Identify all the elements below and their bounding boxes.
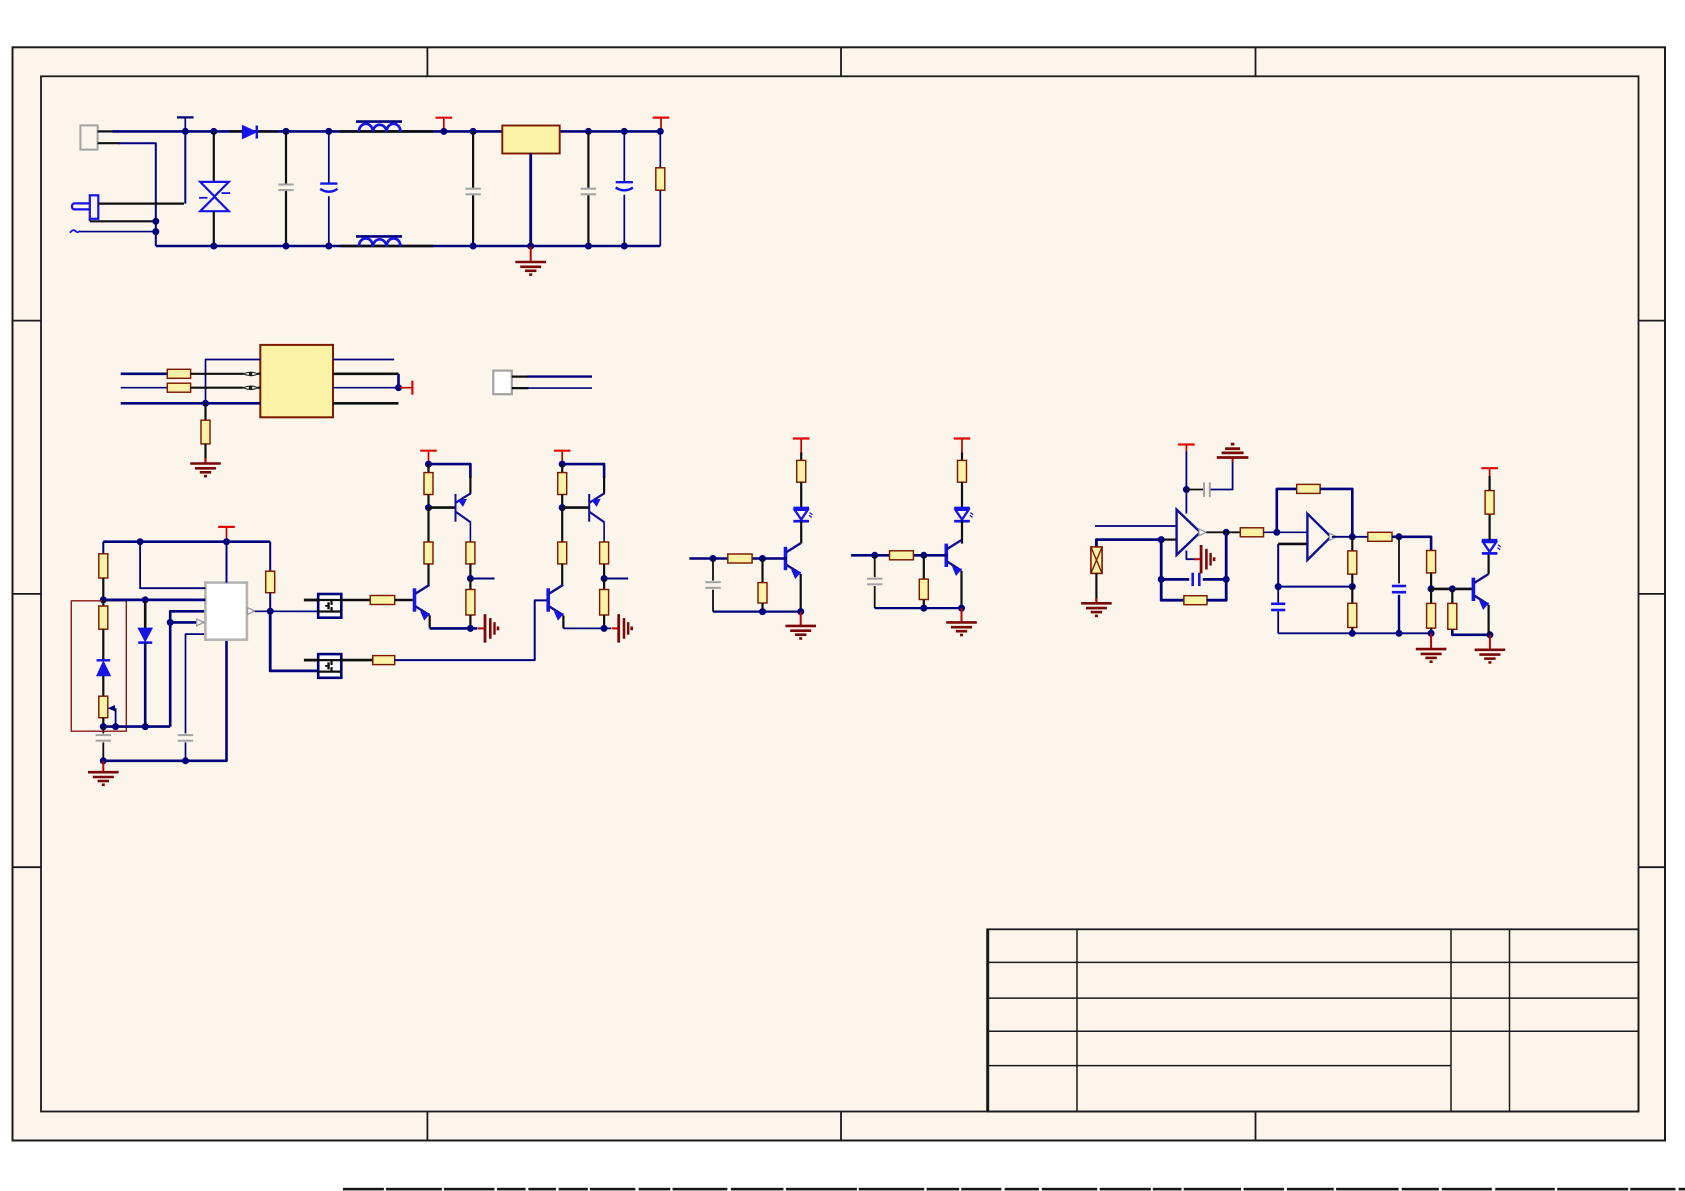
junction	[1486, 631, 1493, 638]
wire U2 gnd pin	[529, 154, 532, 247]
power port stage 1	[420, 451, 437, 464]
junction	[559, 461, 566, 468]
wire led2 cathode	[961, 521, 963, 544]
wire R10 to Q3	[395, 600, 548, 660]
junction	[267, 608, 274, 615]
wire Vcc rail ctrl	[103, 540, 270, 543]
ground GND10	[1416, 649, 1447, 662]
wire c2 top	[874, 555, 876, 577]
capacitor C12	[1271, 604, 1285, 610]
wire R5 top	[102, 542, 104, 554]
wire Rd2 bot	[561, 564, 563, 585]
ground GND9	[1194, 545, 1214, 573]
wire Q6 collector	[1487, 553, 1489, 574]
resistor Re 1	[797, 460, 806, 482]
wire R5 bottom	[102, 578, 104, 600]
resistor Rc 2	[600, 590, 609, 616]
TVS D1	[199, 182, 230, 211]
junction	[283, 128, 290, 135]
wire phase B left	[121, 372, 168, 375]
wire stage 1 emitter gnd	[430, 627, 478, 630]
wire RV1 bottom	[102, 718, 104, 727]
junction	[1275, 583, 1282, 590]
wire q1 emitter	[800, 574, 802, 612]
ground GND7	[1081, 603, 1112, 616]
wire Rc2 top	[603, 579, 605, 590]
wire pin4 net	[170, 621, 196, 624]
wire D4 top	[144, 600, 147, 628]
resistor Rb 2	[600, 542, 609, 564]
wire fb2 loop	[1277, 489, 1297, 532]
wire R2 to T1	[191, 373, 261, 375]
wire R1 branch	[659, 131, 661, 246]
wire R25 bot	[1351, 628, 1353, 634]
wire rg1 bot	[761, 603, 763, 612]
wire base Q6	[1431, 588, 1473, 591]
resistor R29	[1448, 603, 1457, 629]
wire R6 to D3	[102, 629, 104, 660]
junction	[470, 128, 477, 135]
wire R6 top	[102, 600, 104, 606]
wire q2 emitter	[960, 571, 962, 608]
junction	[467, 625, 474, 632]
transistor NPN led 1	[786, 543, 801, 578]
wire R4 top	[204, 403, 206, 420]
wire pin1 net	[140, 542, 205, 589]
wire op1 vminus	[1186, 551, 1195, 560]
ground GND7 stem	[1095, 598, 1097, 603]
capacitor C11	[1204, 482, 1210, 497]
output marker U1	[248, 608, 255, 615]
resistor R8	[266, 571, 275, 593]
wire Rc1 top	[469, 579, 471, 590]
power port +V out	[653, 118, 670, 132]
wire R4 bottom	[204, 444, 206, 462]
wire stage 1 tap	[470, 578, 494, 580]
PWM IC U1	[205, 583, 247, 640]
wire op1 vplus	[1185, 490, 1187, 514]
power port led 2	[954, 439, 971, 453]
pot wiper arrow	[108, 705, 116, 727]
junction	[1396, 630, 1403, 637]
wire gnd rail 2	[875, 607, 962, 609]
wire R29 elbow	[1452, 629, 1490, 635]
wire C13 bot	[1398, 595, 1400, 634]
wire D3 to RV1	[102, 676, 104, 696]
wire C12 bot	[1277, 611, 1279, 633]
wire c1 top	[712, 559, 714, 581]
wire base net 2	[851, 554, 948, 557]
wire Q1 npn emitter	[429, 615, 431, 628]
potentiometer RV1	[99, 696, 108, 718]
power port AC-L	[177, 117, 194, 131]
wire stage 2 top	[562, 464, 604, 478]
wire U3 pins inner	[318, 600, 341, 612]
wire TVS top	[213, 131, 215, 182]
resistor R10	[373, 656, 395, 665]
wire C2 branch	[328, 131, 330, 246]
wire Rb1 bot	[469, 564, 471, 579]
ground stem 1	[800, 612, 802, 626]
resistor Ra 1	[424, 473, 433, 495]
junction	[1223, 576, 1230, 583]
wire Rd2	[561, 508, 563, 542]
resistor R4	[201, 420, 210, 444]
wire gnd rail 1	[713, 610, 801, 612]
junction	[621, 243, 628, 250]
resistor R5	[99, 554, 108, 578]
capacitor Cg 1	[705, 582, 720, 588]
ground GND3 stem	[102, 761, 104, 772]
wire c1 bot	[712, 590, 714, 612]
junction	[585, 128, 592, 135]
ground stage 1	[478, 614, 498, 642]
wire op1 port stem	[1185, 452, 1187, 490]
wire op1 out	[1206, 531, 1240, 533]
junction	[657, 128, 664, 135]
junction	[1396, 533, 1403, 540]
junction	[759, 555, 766, 562]
wire C3 branch	[472, 131, 474, 246]
wire R111 bot	[427, 495, 429, 508]
wire LED3 top	[1488, 514, 1490, 540]
capacitor C13	[1392, 586, 1406, 592]
junction	[167, 619, 174, 626]
wire R29 top	[1451, 589, 1453, 604]
wire fb net	[170, 611, 205, 726]
wire C4 branch	[587, 131, 589, 246]
wire opto2 drive	[270, 611, 318, 671]
ground GND2 stem	[205, 458, 207, 463]
wire rg2 bot	[923, 600, 925, 609]
wire C7 bottom	[185, 742, 187, 760]
ground GND1 stem	[530, 246, 532, 262]
junction	[1223, 529, 1230, 536]
transistor Q6	[1473, 574, 1488, 609]
thermistor RT1	[1091, 547, 1102, 574]
junction	[1428, 585, 1435, 592]
plug J2	[72, 195, 98, 221]
wire U1 top pin	[226, 542, 228, 583]
wire rg1 top	[761, 559, 763, 583]
resistor Rd 2	[558, 542, 567, 564]
module box BT1	[71, 601, 126, 731]
junction	[797, 608, 804, 615]
junction	[325, 243, 332, 250]
wire Rd1 bot	[427, 564, 429, 585]
junction	[1428, 630, 1435, 637]
ground stage 2	[612, 614, 632, 642]
junction	[425, 461, 432, 468]
junction	[467, 575, 474, 582]
junction	[283, 243, 290, 250]
junction	[137, 538, 144, 545]
wire R24 bot	[1351, 574, 1353, 587]
wire mid rail	[1278, 586, 1352, 588]
regulator U2	[502, 126, 559, 154]
wire R9 to Q2	[395, 599, 413, 602]
junction	[710, 555, 717, 562]
power port led3	[1481, 468, 1498, 476]
wire base net 1	[689, 557, 787, 560]
wire op1 in- pin	[1161, 538, 1176, 540]
wire R26 right	[1392, 537, 1431, 551]
resistor R30	[1485, 491, 1494, 514]
wire phase C left	[121, 387, 168, 389]
wire C12 top	[1277, 587, 1279, 603]
wire D4 bottom	[144, 643, 147, 727]
wire C1 branch	[285, 131, 287, 246]
junction	[1158, 576, 1165, 583]
wire Q1 base wire	[429, 506, 456, 509]
wire T1 out A	[333, 359, 394, 361]
wire R27 bot	[1430, 573, 1432, 589]
wire op2 out	[1332, 536, 1368, 538]
wire R112 top	[561, 464, 563, 473]
resistor R6	[99, 606, 108, 629]
capacitor C2	[320, 184, 337, 192]
junction	[1349, 583, 1356, 590]
resistor Rd 1	[424, 542, 433, 564]
wire led1 res top	[800, 453, 802, 461]
wire common D	[121, 402, 261, 405]
wire R24 top	[1351, 537, 1353, 551]
resistor Ra 2	[558, 473, 567, 495]
junction	[100, 757, 107, 764]
junction	[440, 128, 447, 135]
junction	[100, 596, 107, 603]
junction	[1449, 585, 1456, 592]
resistor Rf 1	[728, 554, 752, 563]
resistor Rf 2	[890, 551, 914, 560]
wire U4 pins inner	[318, 660, 341, 672]
optocoupler U3	[318, 594, 341, 618]
wire Rc2 bot	[603, 615, 605, 628]
wire led2 res top	[961, 453, 963, 461]
junction	[142, 596, 149, 603]
wire U1 output	[255, 610, 318, 612]
resistor Rg 2	[919, 579, 928, 599]
op-amp U5B	[1307, 514, 1330, 560]
wire fb1 capwireL	[1161, 578, 1189, 581]
op-amp U5A	[1177, 510, 1201, 555]
wire Q2 collector	[603, 522, 605, 542]
transistor PNP 1	[456, 493, 471, 522]
resistor R26	[1368, 532, 1392, 541]
power port Vcc ctrl	[218, 527, 235, 542]
power port secondary	[400, 381, 413, 395]
wire J3 pin2	[512, 387, 529, 389]
wire plug pin2	[90, 220, 156, 222]
junction	[395, 384, 402, 391]
wire sensor gnd	[1095, 573, 1097, 601]
wire stage 2 emitter gnd	[563, 627, 611, 629]
wire AC neutral bottom rail	[156, 245, 661, 248]
ground GND11 stem	[1489, 635, 1491, 650]
transformer T1	[260, 345, 333, 417]
junction	[470, 243, 477, 250]
wire Q1 collector	[469, 522, 471, 542]
wire stage 2 tap	[604, 578, 628, 580]
wire sensor net	[1096, 540, 1161, 547]
wire stage 1 top	[429, 464, 471, 478]
junction	[871, 552, 878, 559]
junction	[202, 400, 209, 407]
junction	[1183, 486, 1190, 493]
junction	[585, 243, 592, 250]
junction	[210, 128, 217, 135]
capacitor C6	[96, 735, 111, 741]
junction	[425, 504, 432, 511]
resistor R28	[1427, 603, 1436, 628]
capacitor C1	[278, 185, 293, 191]
junction	[1349, 533, 1356, 540]
LED 3	[1482, 540, 1501, 553]
ground GND3	[88, 772, 119, 785]
op-amp U5A out marker	[1199, 529, 1206, 536]
wire op2 in- pin	[1278, 543, 1307, 546]
wire J1 pin2	[98, 142, 120, 144]
wire R8 net	[269, 542, 271, 572]
wire fb2 right	[1320, 489, 1352, 537]
connector J1	[80, 125, 97, 149]
wire T1 out B	[333, 374, 399, 388]
resistor R27	[1427, 551, 1436, 573]
wire Rd1	[427, 508, 429, 542]
wire c2 bot	[874, 586, 876, 608]
resistor R9	[370, 596, 394, 605]
wire U4 anode stub	[304, 659, 318, 662]
wire C6 branch	[102, 727, 104, 761]
wire R8 bottom	[269, 593, 271, 612]
junction	[152, 228, 159, 235]
power port op1 V+	[1178, 445, 1195, 453]
wire U3 anode stub	[304, 599, 318, 602]
inductor L1	[340, 122, 433, 132]
resistor R1	[656, 168, 665, 190]
wire Q2 emitter lead	[603, 476, 605, 494]
junction	[182, 128, 189, 135]
wire fb1 capwireR	[1203, 578, 1226, 581]
wire divider row	[103, 725, 170, 728]
wire R30 top	[1488, 476, 1490, 491]
resistor R23	[1297, 484, 1320, 493]
resistor R24	[1348, 551, 1357, 574]
wire U3 out	[341, 599, 370, 602]
wire pin2 net	[103, 599, 205, 602]
inductor L2	[340, 236, 433, 246]
wire fb1 left	[1161, 540, 1184, 601]
wire Q2 base wire	[562, 506, 589, 509]
junction	[621, 128, 628, 135]
wire TVS bottom	[213, 211, 215, 246]
ground GND led 1	[785, 626, 816, 639]
power port led 1	[793, 439, 810, 453]
junction	[1349, 630, 1356, 637]
junction	[112, 723, 119, 730]
wire J3 pin1	[512, 376, 529, 378]
transistor NPN 2	[548, 585, 563, 620]
junction	[527, 243, 534, 250]
transistor NPN led 2	[946, 540, 961, 575]
junction	[142, 723, 149, 730]
junction	[1158, 536, 1165, 543]
diode D4	[138, 628, 152, 643]
junction	[601, 625, 608, 632]
wire ctrl gnd rail	[103, 640, 226, 761]
wire led1 anode	[800, 482, 802, 508]
capacitor C5	[616, 182, 633, 190]
resistor R2	[167, 369, 190, 378]
junction	[152, 218, 159, 225]
wire C11 left	[1186, 489, 1203, 491]
connector J3	[493, 371, 512, 395]
capacitor C7	[178, 735, 193, 741]
transistor PNP 2	[589, 493, 604, 522]
resistor R22	[1240, 528, 1263, 537]
junction	[1273, 529, 1280, 536]
ground GND led 2	[946, 622, 977, 635]
junction	[920, 605, 927, 612]
ground stem 2	[961, 608, 963, 622]
wire fb1 right	[1207, 532, 1226, 600]
wire squiggle to neutral	[80, 231, 156, 233]
wire T1 out D	[333, 402, 399, 405]
resistor Rc 1	[466, 590, 475, 616]
wire C13 top	[1398, 537, 1400, 584]
junction	[325, 128, 332, 135]
capacitor C3	[465, 189, 480, 195]
wire lower rail	[1278, 632, 1431, 634]
wire R28 top	[1430, 589, 1432, 604]
resistor R21	[1184, 596, 1207, 605]
wire Rc1 bot	[469, 615, 471, 628]
resistor Rb 1	[466, 542, 475, 564]
wire R111 top	[427, 464, 429, 473]
ground GND2	[190, 464, 221, 477]
junction	[601, 575, 608, 582]
junction	[100, 723, 107, 730]
wire R112 bot	[561, 495, 563, 508]
junction	[559, 504, 566, 511]
wire J1 pin1	[98, 130, 114, 132]
squiggle AC mark	[70, 230, 80, 233]
resistor Rg 1	[758, 583, 767, 603]
wire R25 top	[1351, 587, 1353, 604]
power port +V unreg	[436, 118, 453, 132]
wire J3 net2	[527, 387, 592, 389]
wire T1 winding A	[206, 360, 261, 404]
resistor R25	[1348, 603, 1357, 627]
ground GND10 stem	[1430, 633, 1432, 648]
wire Q2 npn emitter	[562, 615, 564, 628]
footer dashes	[343, 1188, 1685, 1191]
diode D3	[97, 660, 111, 676]
wire AC line top rail	[113, 130, 661, 133]
ground GND1	[515, 262, 546, 275]
wire plug pin1	[98, 203, 184, 205]
wire U4 out	[341, 659, 373, 662]
wire pin5 net	[186, 634, 206, 733]
LED 2	[954, 508, 973, 521]
capacitor Cg 2	[867, 579, 882, 585]
junction	[210, 243, 217, 250]
wire J1 pin2 to neutral	[118, 143, 156, 246]
wire op1 in+ long	[1095, 525, 1176, 527]
wire rg2 top	[923, 555, 925, 579]
bead FB1	[243, 372, 258, 376]
LED 1	[793, 508, 812, 521]
